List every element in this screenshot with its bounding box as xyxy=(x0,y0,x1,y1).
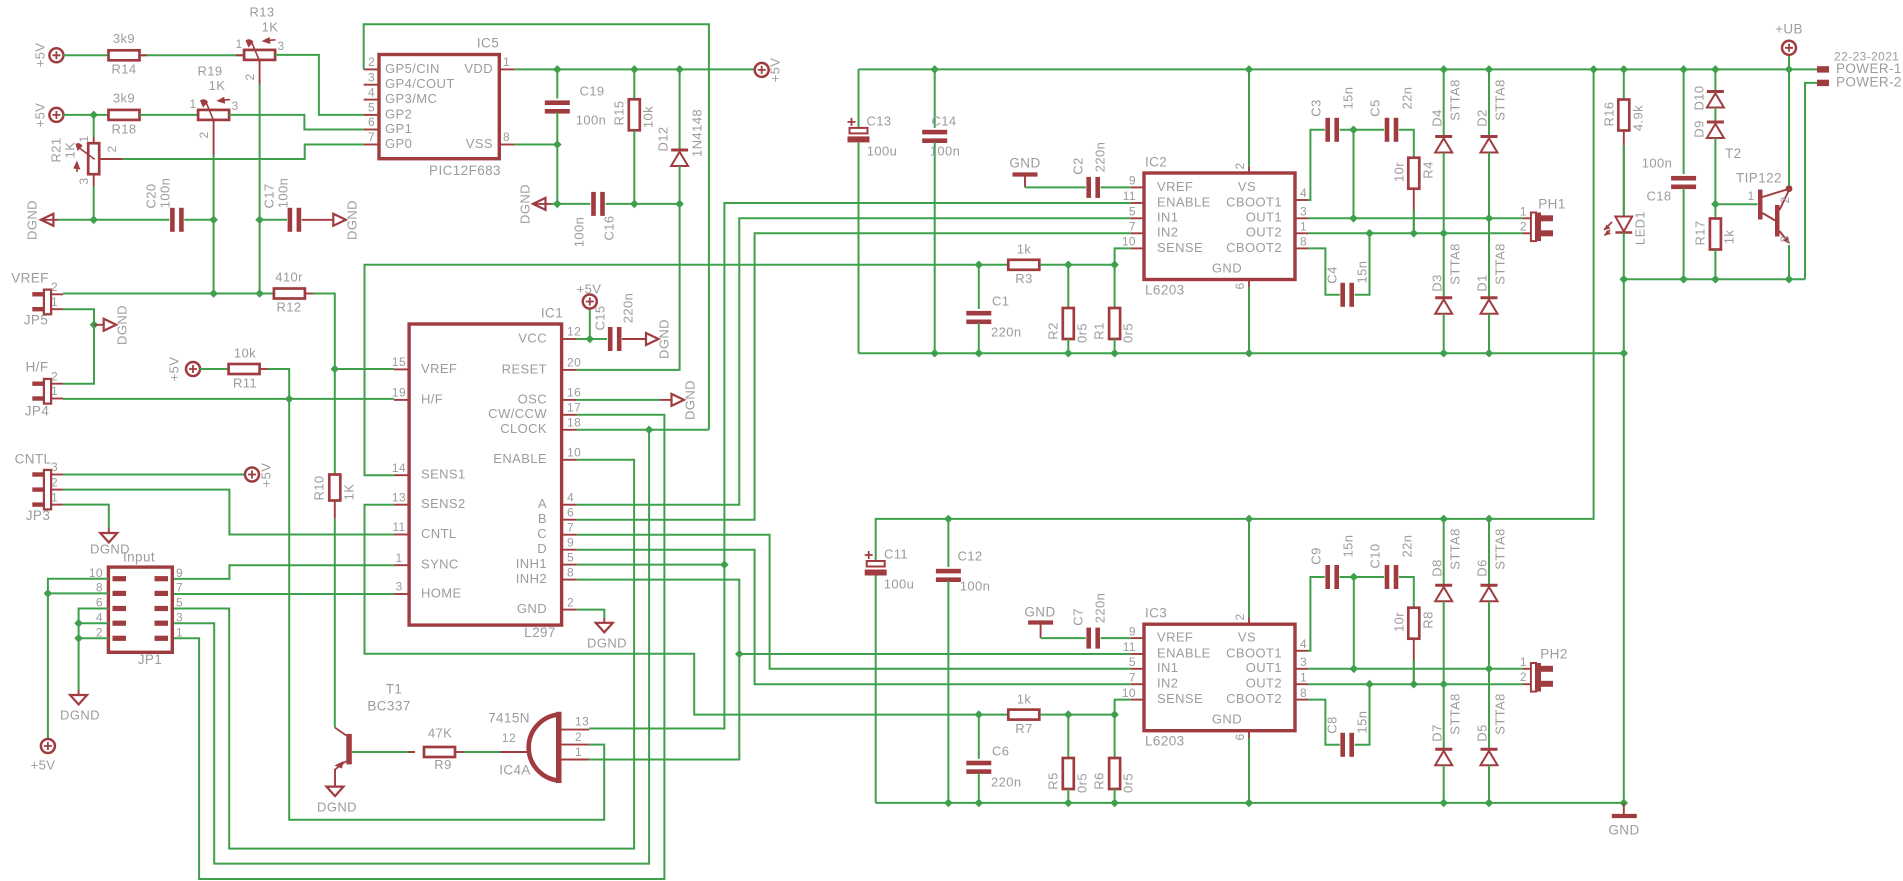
svg-text:DGND: DGND xyxy=(317,799,357,814)
svg-text:BC337: BC337 xyxy=(367,699,410,714)
svg-text:13: 13 xyxy=(575,715,589,729)
capacitor C4 15n xyxy=(1340,283,1345,307)
svg-text:5: 5 xyxy=(1129,204,1136,218)
svg-text:HOME: HOME xyxy=(421,585,462,600)
wire IC3 OUT2 to PH2-2 xyxy=(1308,683,1523,685)
diode D1 STTA8 xyxy=(1488,218,1490,297)
+UB rail top xyxy=(859,68,1818,70)
wire SYNC to JP1-9 xyxy=(172,565,394,579)
wire HOME to JP1-7 xyxy=(172,593,394,595)
svg-text:L297: L297 xyxy=(524,625,556,640)
wire R21 pin3 down to DGND rail xyxy=(93,174,95,186)
svg-text:2: 2 xyxy=(1778,196,1792,203)
svg-text:1: 1 xyxy=(235,37,242,51)
svg-text:C8: C8 xyxy=(1324,716,1339,733)
svg-text:5: 5 xyxy=(176,596,183,610)
svg-text:IN1: IN1 xyxy=(1157,660,1178,675)
svg-text:4.9k: 4.9k xyxy=(1630,105,1645,131)
svg-text:TIP122: TIP122 xyxy=(1736,171,1782,186)
junction LED1 bottom xyxy=(1620,275,1629,284)
resistor R15 10k vertical xyxy=(633,69,635,99)
wire R13 pin3 to PIC GP2 xyxy=(275,55,364,115)
svg-text:R2: R2 xyxy=(1045,322,1060,339)
svg-text:3: 3 xyxy=(395,580,402,594)
svg-text:410r: 410r xyxy=(275,269,303,284)
wire R21 pin1 up to +5V junction xyxy=(93,137,95,143)
svg-text:18: 18 xyxy=(567,415,581,429)
svg-text:C17: C17 xyxy=(261,183,276,208)
svg-text:IC3: IC3 xyxy=(1145,606,1167,621)
wire CW/CCW to bus and JP1-1 xyxy=(172,415,664,879)
svg-text:DGND: DGND xyxy=(587,635,627,650)
wire D to IC3 IN2 xyxy=(577,550,1131,685)
capacitor C11 100u polarized xyxy=(867,561,885,567)
svg-text:GND: GND xyxy=(1212,260,1242,275)
svg-text:0r5: 0r5 xyxy=(1120,323,1135,343)
diode D9 xyxy=(1714,108,1716,122)
wire IC2 OUT2 to PH1-2 xyxy=(1308,232,1523,234)
capacitor C14 100n xyxy=(934,69,936,128)
junction OUT1 left xyxy=(1349,214,1358,223)
wire SENS2 to R7 line xyxy=(365,505,1008,715)
junction OUT1 IC3 left xyxy=(1350,665,1359,674)
junction R6 top xyxy=(1110,710,1119,719)
resistor R2 0r5 xyxy=(1067,265,1069,308)
DGND symbol right of C15 xyxy=(646,333,659,345)
IC5 pin stubs right xyxy=(499,68,514,70)
svg-text:2: 2 xyxy=(1520,670,1527,684)
IC2 GND pin 6 xyxy=(1248,280,1250,288)
junction D2 top rail xyxy=(1485,65,1494,74)
svg-text:IC5: IC5 xyxy=(477,36,499,51)
svg-text:220n: 220n xyxy=(991,774,1022,789)
IC1 L297 box xyxy=(409,324,561,625)
svg-text:100n: 100n xyxy=(1642,155,1673,170)
svg-text:4: 4 xyxy=(567,490,574,504)
junction VS feed top rail xyxy=(1589,65,1598,74)
junction R4/OUT2 xyxy=(1410,229,1419,238)
svg-text:+5V: +5V xyxy=(32,103,47,128)
svg-text:15: 15 xyxy=(392,355,406,369)
svg-text:1: 1 xyxy=(51,295,58,309)
capacitor C20 100n xyxy=(170,208,175,232)
resistor R16 4.9k xyxy=(1623,69,1625,99)
svg-text:R1: R1 xyxy=(1091,322,1106,339)
wire R19 pin2 down xyxy=(213,120,215,155)
svg-text:R6: R6 xyxy=(1091,772,1106,789)
svg-text:22n: 22n xyxy=(1399,535,1414,558)
connector POWER-1 xyxy=(1817,66,1829,72)
wire OSC to DGND xyxy=(577,399,660,401)
svg-text:100u: 100u xyxy=(884,576,915,591)
svg-text:9: 9 xyxy=(176,566,183,580)
svg-text:2: 2 xyxy=(105,145,119,152)
svg-text:+5V: +5V xyxy=(166,357,181,382)
svg-text:1k: 1k xyxy=(1017,241,1032,256)
svg-text:15n: 15n xyxy=(1340,87,1355,110)
resistor R1 0r5 xyxy=(1114,265,1116,308)
svg-text:LED1: LED1 xyxy=(1632,211,1647,245)
junction D6 top rail xyxy=(1485,515,1494,524)
svg-text:OSC: OSC xyxy=(518,391,547,406)
svg-text:3: 3 xyxy=(1300,655,1307,669)
junction R19-2 / C20 xyxy=(209,216,218,225)
svg-text:3k9: 3k9 xyxy=(113,31,135,46)
wire C8 up to OUT2 IC3 xyxy=(1355,684,1370,745)
DGND symbol right of C17 xyxy=(333,214,346,226)
wire C4 up to OUT2 xyxy=(1355,233,1370,294)
svg-text:R5: R5 xyxy=(1045,772,1060,789)
capacitor C9 15n xyxy=(1325,565,1330,589)
junction R7 left / C6 xyxy=(975,710,984,719)
svg-text:R10: R10 xyxy=(311,475,326,500)
svg-text:D8: D8 xyxy=(1429,559,1444,576)
wire C7 to IC3 VREF xyxy=(1101,637,1131,639)
junction C19 top xyxy=(553,65,562,74)
svg-text:1: 1 xyxy=(1300,670,1307,684)
junction D10 top xyxy=(1711,65,1720,74)
svg-text:7: 7 xyxy=(368,130,375,144)
junction JP1-4 xyxy=(74,619,83,628)
wire IC3 CBOOT1 to C9 xyxy=(1308,577,1325,651)
svg-text:10k: 10k xyxy=(234,345,256,360)
svg-text:1: 1 xyxy=(1520,205,1527,219)
wire R11 to H/F net riser xyxy=(260,368,268,370)
svg-text:C13: C13 xyxy=(866,113,891,128)
svg-text:IN1: IN1 xyxy=(1157,210,1178,225)
IC2 pin stubs left xyxy=(1131,186,1144,188)
svg-text:7: 7 xyxy=(567,520,574,534)
svg-text:3: 3 xyxy=(176,610,183,624)
svg-text:C12: C12 xyxy=(957,548,982,563)
svg-text:DGND: DGND xyxy=(517,184,532,224)
+5V supply row2 xyxy=(49,108,63,122)
capacitor C13 100u polarized xyxy=(858,69,860,128)
wire INH1 up to IC2 ENABLE xyxy=(724,203,1130,565)
svg-text:IC2: IC2 xyxy=(1145,155,1167,170)
wire R4 down to OUT2 xyxy=(1413,189,1415,234)
svg-text:OUT2: OUT2 xyxy=(1246,225,1282,240)
svg-text:9: 9 xyxy=(567,535,574,549)
IC3 L6203 box xyxy=(1144,624,1295,731)
svg-text:C10: C10 xyxy=(1367,543,1382,568)
junction R13-2 / C17 xyxy=(255,216,264,225)
wire VS feed to IC3 rail xyxy=(876,69,1594,561)
junction D8 top rail xyxy=(1439,515,1448,524)
svg-text:2: 2 xyxy=(575,730,582,744)
svg-text:R14: R14 xyxy=(111,61,136,76)
svg-text:SENS2: SENS2 xyxy=(421,496,466,511)
wire R3 right to SENSE xyxy=(1040,248,1131,264)
svg-text:R21: R21 xyxy=(48,137,63,162)
junction C3/C5 xyxy=(1349,126,1358,135)
svg-text:7: 7 xyxy=(176,581,183,595)
resistor R4 10r vertical xyxy=(1408,158,1419,189)
svg-text:C16: C16 xyxy=(601,215,616,240)
DGND symbol near JP5 xyxy=(94,324,104,326)
IC2 L6203 box xyxy=(1144,173,1295,280)
svg-text:STTA8: STTA8 xyxy=(1447,243,1462,285)
diode D5 STTA8 xyxy=(1488,669,1490,749)
svg-text:D12: D12 xyxy=(655,126,670,151)
svg-text:SYNC: SYNC xyxy=(421,557,459,572)
svg-text:10k: 10k xyxy=(640,106,655,128)
svg-text:100n: 100n xyxy=(275,178,290,209)
svg-text:CBOOT1: CBOOT1 xyxy=(1226,645,1282,660)
svg-text:D: D xyxy=(537,541,547,556)
svg-text:1: 1 xyxy=(575,745,582,759)
svg-text:1k: 1k xyxy=(1721,230,1736,245)
svg-text:A: A xyxy=(538,496,547,511)
svg-text:VREF: VREF xyxy=(11,271,49,286)
svg-text:PH1: PH1 xyxy=(1538,197,1565,212)
svg-text:VREF: VREF xyxy=(1157,179,1193,194)
junction T2 collector rail xyxy=(1785,65,1794,74)
svg-text:GP1: GP1 xyxy=(385,121,412,136)
svg-text:6: 6 xyxy=(1233,282,1247,289)
capacitor C15 220n xyxy=(608,327,613,351)
+UB supply xyxy=(1788,55,1790,70)
wire DGND to C16 xyxy=(533,203,551,205)
DGND symbol below T1 xyxy=(327,787,344,797)
svg-text:R18: R18 xyxy=(111,121,136,136)
svg-text:C19: C19 xyxy=(579,83,604,98)
svg-text:3: 3 xyxy=(51,460,58,474)
DGND symbol at OSC xyxy=(672,394,685,406)
wire IC2 OUT1 to PH1-1 xyxy=(1308,217,1523,219)
svg-text:R7: R7 xyxy=(1015,721,1032,736)
svg-text:100n: 100n xyxy=(571,217,586,248)
wire IC2 CBOOT1 to C3 xyxy=(1308,130,1325,200)
junction R1 bottom xyxy=(1110,349,1119,358)
wire GND to C7 xyxy=(1041,637,1086,639)
svg-text:R13: R13 xyxy=(249,4,274,19)
junction D4 top rail xyxy=(1439,65,1448,74)
svg-text:3: 3 xyxy=(1300,204,1307,218)
junction R15 bottom xyxy=(630,200,639,209)
resistor R7 1k xyxy=(1008,710,1039,720)
svg-text:10: 10 xyxy=(1122,686,1136,700)
resistor R14 3k9 xyxy=(109,50,140,60)
svg-text:STTA8: STTA8 xyxy=(1492,243,1507,285)
svg-text:T1: T1 xyxy=(386,682,403,697)
svg-text:INH1: INH1 xyxy=(516,556,547,571)
svg-text:220n: 220n xyxy=(1092,142,1107,173)
svg-text:R17: R17 xyxy=(1692,220,1707,245)
svg-text:IN2: IN2 xyxy=(1157,225,1178,240)
svg-text:ENABLE: ENABLE xyxy=(1157,645,1211,660)
wire C19 bottom to C16 line xyxy=(556,113,558,204)
junction INH1 xyxy=(720,560,729,569)
wire GP5 around top to CLOCK xyxy=(364,24,709,430)
junction CLOCK bus xyxy=(645,426,654,435)
LED1 xyxy=(1615,217,1632,232)
wire VCC to +5V and C15 xyxy=(577,338,607,340)
wire junction down to OUT1 xyxy=(1353,130,1355,219)
svg-text:1: 1 xyxy=(1300,219,1307,233)
svg-text:RESET: RESET xyxy=(502,361,547,376)
+5V supply for JP3 xyxy=(245,468,259,482)
svg-text:D4: D4 xyxy=(1429,109,1444,126)
svg-text:220n: 220n xyxy=(1092,593,1107,624)
svg-text:100n: 100n xyxy=(930,143,961,158)
wire IC3 OUT1 to PH2-1 xyxy=(1308,668,1523,670)
svg-text:STTA8: STTA8 xyxy=(1492,528,1507,570)
svg-text:STTA8: STTA8 xyxy=(1492,693,1507,735)
diode D3 STTA8 xyxy=(1443,233,1445,297)
IC1 pin stubs right xyxy=(562,338,577,340)
svg-text:+5V: +5V xyxy=(258,463,273,488)
svg-text:R8: R8 xyxy=(1420,611,1435,628)
wire INH1 to IC2 ENABLE and gate 13 xyxy=(577,564,725,566)
IC2 right stubs xyxy=(1295,199,1308,201)
junction C19/C16 line xyxy=(553,200,562,209)
diode D7 STTA8 xyxy=(1443,684,1445,748)
svg-text:1K: 1K xyxy=(209,78,226,93)
svg-text:15n: 15n xyxy=(1340,535,1355,558)
junction R8/OUT2 xyxy=(1410,680,1419,689)
svg-text:3k9: 3k9 xyxy=(113,90,135,105)
wire JP4-1 to H/F line xyxy=(63,398,394,400)
svg-text:0r5: 0r5 xyxy=(1120,773,1135,793)
svg-text:7415N: 7415N xyxy=(488,711,530,726)
svg-text:14: 14 xyxy=(392,461,406,475)
svg-text:2: 2 xyxy=(51,280,58,294)
svg-text:100n: 100n xyxy=(157,178,172,209)
wire IC3 CBOOT2 to C8 xyxy=(1308,700,1340,745)
DGND symbol below JP3 xyxy=(100,533,117,543)
IC3 pin stubs left xyxy=(1131,637,1144,639)
svg-text:C5: C5 xyxy=(1367,99,1382,116)
junction C12 top xyxy=(944,515,953,524)
svg-text:IN2: IN2 xyxy=(1157,676,1178,691)
svg-text:C4: C4 xyxy=(1324,266,1339,283)
svg-text:+5V: +5V xyxy=(577,281,602,296)
svg-text:CNTL: CNTL xyxy=(421,526,457,541)
junction R17 bottom xyxy=(1711,275,1720,284)
svg-text:22-23-2021: 22-23-2021 xyxy=(1834,50,1899,64)
junction C14 top xyxy=(930,65,939,74)
svg-text:+5V: +5V xyxy=(31,757,56,772)
wire R8 down to OUT2 IC3 xyxy=(1413,639,1415,685)
svg-text:1K: 1K xyxy=(262,19,279,34)
svg-text:3: 3 xyxy=(277,39,284,53)
svg-text:OUT2: OUT2 xyxy=(1246,676,1282,691)
svg-text:2: 2 xyxy=(1520,220,1527,234)
potentiometer R19 1K xyxy=(198,110,229,120)
wire JP5-2 VREF line xyxy=(63,293,274,295)
svg-text:GP5/CIN: GP5/CIN xyxy=(385,61,440,76)
svg-text:CW/CCW: CW/CCW xyxy=(488,406,547,421)
junction C1 bottom xyxy=(975,349,984,358)
wire GND to C2 xyxy=(1025,186,1086,188)
wire C20 to R19-2 junction xyxy=(184,219,213,221)
svg-text:JP4: JP4 xyxy=(25,404,50,419)
wire JP3-1 to DGND xyxy=(63,505,109,528)
junction IC3 ENABLE xyxy=(735,650,744,659)
junction IC3 GND rail xyxy=(1245,799,1254,808)
svg-text:ENABLE: ENABLE xyxy=(493,451,547,466)
svg-text:17: 17 xyxy=(567,400,581,414)
junction C12 bottom xyxy=(944,799,953,808)
svg-text:D7: D7 xyxy=(1429,724,1444,741)
svg-text:GP2: GP2 xyxy=(385,106,412,121)
svg-text:IC1: IC1 xyxy=(541,306,563,321)
svg-text:16: 16 xyxy=(567,386,581,400)
svg-text:POWER-2: POWER-2 xyxy=(1836,74,1902,89)
DGND symbol below L297 xyxy=(596,623,613,633)
junction JP1-8 xyxy=(44,589,53,598)
junction VSS/C19 xyxy=(553,140,562,149)
junction +5V/R18/R21 xyxy=(89,111,98,120)
svg-text:11: 11 xyxy=(1123,189,1136,203)
svg-text:DGND: DGND xyxy=(656,319,671,359)
svg-text:15n: 15n xyxy=(1354,261,1369,284)
mid GND rail xyxy=(859,352,1624,354)
capacitor C18 100n xyxy=(1683,69,1685,174)
junction D1 bottom rail xyxy=(1485,349,1494,358)
svg-text:R15: R15 xyxy=(611,100,626,125)
capacitor C3 15n xyxy=(1325,118,1330,142)
svg-text:H/F: H/F xyxy=(26,360,49,375)
svg-text:DGND: DGND xyxy=(60,707,100,722)
svg-text:INH2: INH2 xyxy=(516,571,547,586)
svg-text:12: 12 xyxy=(502,731,516,745)
svg-text:7: 7 xyxy=(1129,670,1136,684)
svg-text:3: 3 xyxy=(77,177,91,184)
svg-text:D3: D3 xyxy=(1429,274,1444,291)
svg-text:6: 6 xyxy=(567,505,574,519)
wire CLOCK bus to JP1-3 xyxy=(172,430,649,864)
svg-text:VSS: VSS xyxy=(466,136,493,151)
wire B to IC2 IN2 xyxy=(577,233,1131,519)
wire ENABLE to bus and JP1-5 xyxy=(172,460,634,849)
svg-text:3: 3 xyxy=(231,99,238,113)
svg-text:2: 2 xyxy=(1233,162,1247,169)
svg-text:VDD: VDD xyxy=(464,61,493,76)
capacitor C8 15n xyxy=(1340,733,1345,757)
svg-text:10: 10 xyxy=(567,445,581,459)
svg-text:3: 3 xyxy=(1778,235,1792,242)
svg-text:JP5: JP5 xyxy=(24,313,48,328)
svg-text:GND: GND xyxy=(1212,711,1242,726)
svg-text:10r: 10r xyxy=(1391,612,1406,632)
svg-text:STTA8: STTA8 xyxy=(1447,79,1462,121)
svg-text:D10: D10 xyxy=(1691,85,1706,110)
junction JP1-2 xyxy=(74,634,83,643)
junction R5 bottom xyxy=(1064,799,1073,808)
svg-text:1: 1 xyxy=(395,551,402,565)
resistor R10 1K vertical xyxy=(329,475,340,501)
wire +5V to R11 xyxy=(200,368,229,370)
svg-text:GP3/MC: GP3/MC xyxy=(385,91,437,106)
junction R19-2 / VREF line xyxy=(209,289,218,298)
wire IC2 CBOOT2 to C4 xyxy=(1308,248,1340,294)
wire CLOCK to GP5 riser and bus xyxy=(577,429,709,431)
resistor R3 1k xyxy=(1008,260,1039,270)
wire VSS to C19 line xyxy=(515,144,558,146)
svg-text:2: 2 xyxy=(243,73,257,80)
svg-text:D6: D6 xyxy=(1474,559,1489,576)
wire JP1-2 xyxy=(79,637,109,639)
wire T2 base xyxy=(1715,203,1757,205)
junction VCC +5V xyxy=(586,335,595,344)
svg-text:5: 5 xyxy=(368,101,375,115)
svg-text:1: 1 xyxy=(176,625,183,639)
wire +5V to R14 xyxy=(63,54,109,56)
svg-text:T2: T2 xyxy=(1725,146,1742,161)
junction C6 bottom xyxy=(975,799,984,808)
